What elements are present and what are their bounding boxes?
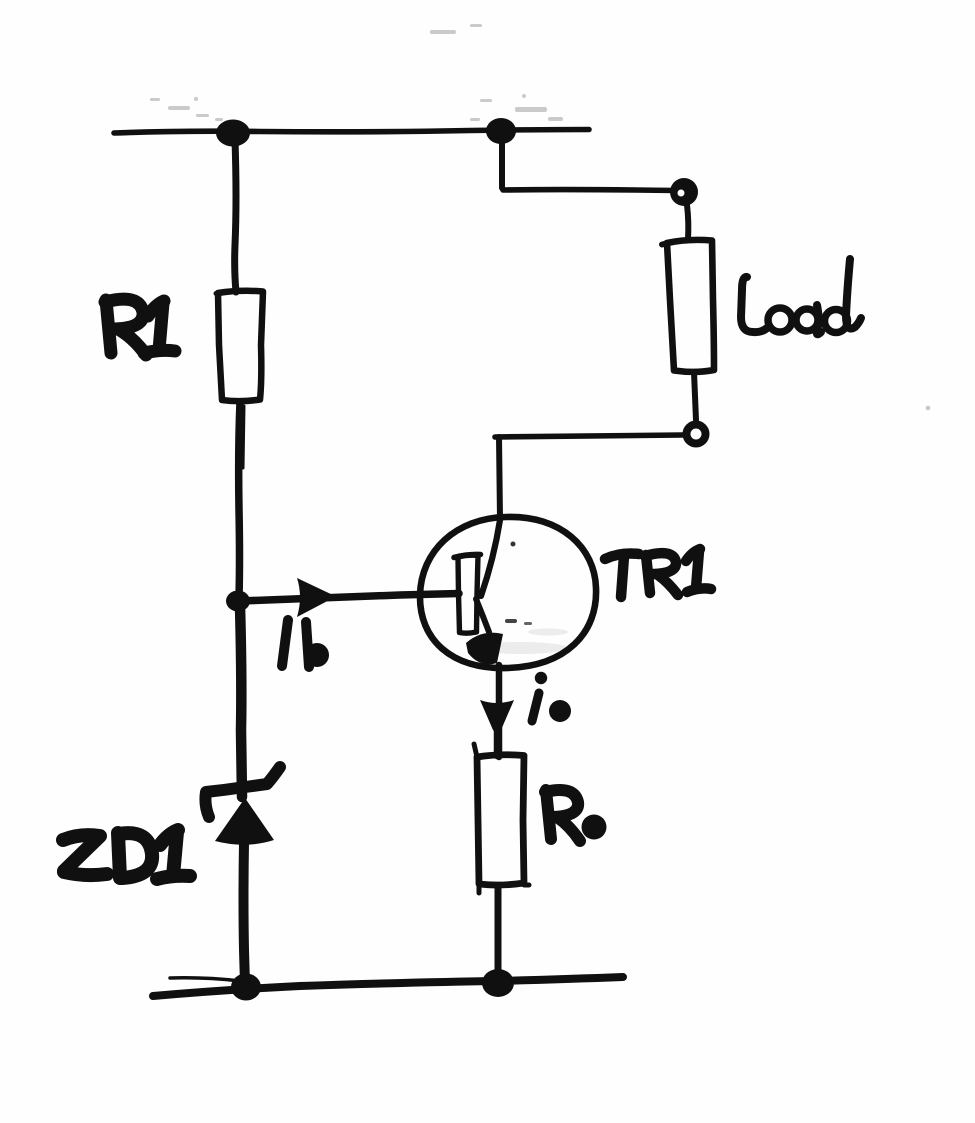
arrow ie on emitter wire [480, 700, 514, 733]
collector line inside circle [481, 520, 500, 596]
wire: bottom terminal to collector drop [495, 435, 683, 437]
wire: arrow to Re top [494, 731, 501, 756]
node B: junction dot top-right [486, 118, 516, 144]
arrow Ib on base wire [297, 578, 336, 617]
resistor Re [474, 744, 529, 893]
wire: node B down [499, 138, 505, 188]
wire: Re bottom to rail [495, 886, 502, 982]
transistor TR1 circle [420, 517, 596, 668]
node C: base junction dot [226, 591, 250, 612]
resistor Load [667, 240, 714, 372]
label Ib [282, 620, 309, 667]
label ie [535, 672, 547, 684]
terminal: load bottom [687, 425, 706, 444]
emitter arrowhead [466, 633, 503, 665]
label R1 [105, 299, 175, 355]
zener diode ZD1 cathode bar [205, 767, 280, 817]
node E: bottom-right junction dot [482, 969, 514, 997]
wire: rail node to R1 top [235, 140, 236, 292]
label Re [545, 790, 580, 841]
wire: terminal to load [687, 205, 688, 239]
wire: R1 bottom to base node [239, 402, 240, 597]
wire: top supply rail [114, 130, 589, 134]
label TR1 [605, 549, 711, 597]
label ZD1 [63, 830, 190, 879]
wire: zener branch from node C [240, 606, 242, 797]
wire: load bottom to terminal [694, 372, 696, 420]
emitter line inside circle [476, 599, 489, 632]
label Load [741, 259, 861, 334]
terminal: load top [670, 178, 698, 206]
node A: junction dot top-left [216, 120, 250, 147]
wire: collector from rail [499, 437, 500, 519]
scan smudges above top rail [150, 24, 930, 410]
transistor base bar [458, 555, 478, 633]
wire: to load top terminal [503, 187, 676, 193]
bottom rail [153, 977, 623, 996]
faint mottling inside transistor circle [472, 629, 568, 655]
zener diode ZD1 anode triangle [215, 798, 274, 845]
wire: zener to bottom rail [244, 843, 246, 984]
wire: emitter below circle [496, 665, 503, 757]
resistor R1 [216, 291, 263, 401]
wire: base wire to transistor [240, 594, 459, 602]
node D: bottom-left junction dot [231, 974, 261, 1001]
